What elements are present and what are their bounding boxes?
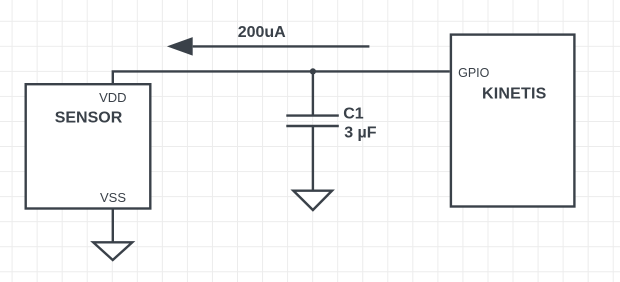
svg-text:SENSOR: SENSOR: [55, 109, 123, 126]
svg-text:VDD: VDD: [99, 90, 126, 105]
svg-text:200uA: 200uA: [238, 24, 286, 41]
svg-text:C1: C1: [343, 106, 364, 123]
svg-text:GPIO: GPIO: [458, 66, 490, 80]
svg-text:3 µF: 3 µF: [344, 124, 377, 141]
svg-text:KINETIS: KINETIS: [482, 86, 547, 103]
svg-text:VSS: VSS: [100, 190, 126, 205]
